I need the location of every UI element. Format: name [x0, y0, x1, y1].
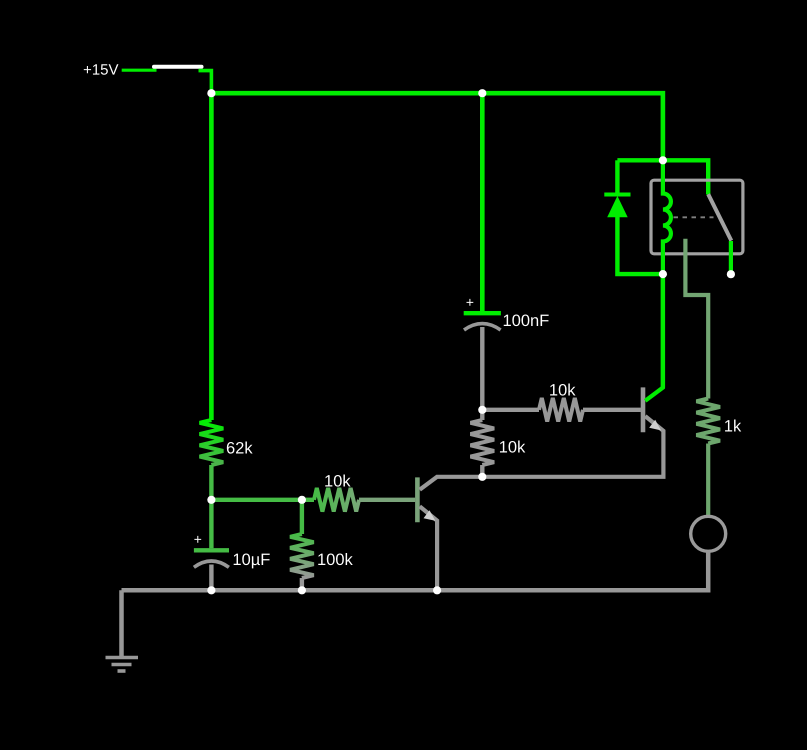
- node A right junction: [298, 496, 306, 504]
- transistor Q2 emitter: [482, 416, 663, 477]
- capacitor C2 100nF bottom curved plate: [464, 324, 501, 330]
- node coil bottom junction: [659, 270, 667, 278]
- capacitor C2 100nF top wire: [480, 93, 485, 311]
- capacitor C2 100nF plus sign: [466, 299, 473, 306]
- resistor R2 100k top lead: [300, 500, 304, 534]
- node B junction: [478, 406, 486, 414]
- relay K1 box: [651, 180, 743, 254]
- lamp L1: [691, 516, 726, 551]
- value 62k: [227, 442, 253, 454]
- transistor Q1 collector: [420, 477, 483, 490]
- node rail-cap junction: [478, 89, 486, 97]
- node relay top junction: [659, 156, 667, 164]
- node rail-100k junction: [298, 586, 306, 594]
- wire coil bottom to Q2 collector: [661, 274, 665, 388]
- wire lamp to bottom rail: [122, 551, 709, 590]
- switch SW1 lever (closed): [154, 65, 202, 69]
- node C junction: [478, 473, 486, 481]
- wire node A down to C1: [209, 500, 213, 548]
- wire 62k bottom to node A: [209, 465, 213, 500]
- node relay NO post: [727, 270, 735, 278]
- node rail-C1 junction: [207, 586, 215, 594]
- capacitor C1 10uF bottom curved plate: [194, 561, 229, 567]
- relay K1 linkage dashes: [674, 216, 714, 218]
- resistor R4 10k vertical top lead: [480, 410, 484, 420]
- node rail-switch junction: [207, 89, 215, 97]
- wire C2 to node B: [480, 327, 484, 410]
- relay K1 throw post wire (sage): [685, 239, 708, 399]
- capacitor C1 10uF plus sign: [194, 536, 201, 543]
- value 10k: [325, 475, 350, 487]
- transistor Q2 emitter arrow: [649, 420, 661, 431]
- wire node A horizontal: [211, 498, 302, 502]
- wire bottom rail to ground: [119, 590, 124, 657]
- diode D1 bottom lead: [617, 217, 663, 274]
- resistor R2 100k: [290, 534, 314, 578]
- wire C1 to bottom rail: [209, 565, 213, 591]
- relay K1 NO contact stub: [729, 241, 733, 274]
- value 10uF: [234, 553, 270, 568]
- resistor R3 10k: [314, 488, 359, 512]
- value 10k: [500, 441, 525, 453]
- relay K1 coil: [663, 160, 671, 274]
- node A left junction: [207, 496, 215, 504]
- relay K1 switch arm: [708, 194, 731, 240]
- transistor Q1 emitter arrow: [424, 510, 436, 521]
- wire R5 to Q2 base: [583, 408, 641, 412]
- wire rail lead: [122, 69, 157, 72]
- transistor Q2 base bar: [641, 387, 646, 432]
- diode D1 top lead: [615, 160, 619, 194]
- wire switch to rail corner: [199, 71, 212, 94]
- value 10k: [550, 384, 575, 396]
- node rail-Q1 junction: [433, 586, 441, 594]
- transistor Q1 emitter: [420, 506, 437, 590]
- value 100k: [318, 553, 353, 565]
- wire top rail: [211, 93, 663, 160]
- wire relay row right to pivot: [663, 160, 708, 194]
- node +15V label: [84, 64, 119, 74]
- capacitor C1 10uF top plate: [194, 548, 229, 552]
- value 100nF: [504, 314, 549, 326]
- value 1k: [725, 420, 741, 432]
- resistor R1 62k: [200, 420, 224, 465]
- wire left vertical +15 to 62k: [209, 93, 214, 420]
- resistor R5 10k left lead: [482, 408, 539, 412]
- wire R3 to Q1 base: [359, 498, 415, 502]
- transistor Q1 base bar: [415, 477, 420, 522]
- resistor R2 100k bottom lead: [300, 578, 304, 590]
- diode D1 cathode bar: [604, 193, 630, 197]
- capacitor C2 100nF top plate: [464, 311, 501, 315]
- resistor R6 1k: [696, 399, 720, 444]
- resistor R5 10k: [539, 398, 583, 422]
- wire relay row left to diode: [617, 158, 663, 162]
- resistor R3 10k left lead: [302, 498, 314, 502]
- transistor Q2 collector: [645, 274, 663, 401]
- resistor R4 bottom lead: [480, 465, 484, 477]
- resistor R6 bottom lead: [706, 444, 710, 517]
- resistor R4 10k vertical: [471, 420, 495, 465]
- diode D1 triangle: [607, 196, 628, 217]
- ground: [106, 658, 139, 672]
